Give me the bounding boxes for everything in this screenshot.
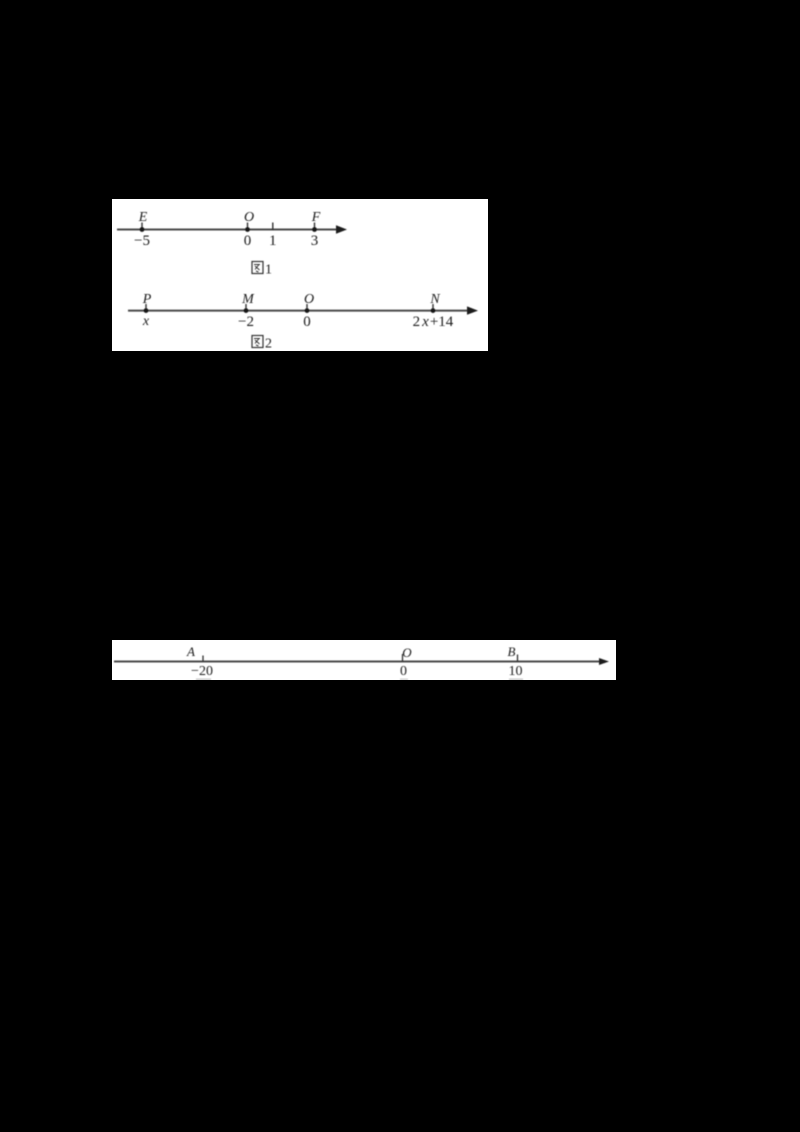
svg-text:−20: −20: [191, 664, 213, 679]
svg-text:0: 0: [244, 233, 252, 249]
svg-text:0: 0: [400, 664, 407, 679]
svg-text:O: O: [402, 645, 412, 660]
svg-text:0: 0: [303, 314, 311, 330]
svg-text:2: 2: [265, 337, 272, 352]
svg-text:E: E: [138, 210, 148, 225]
svg-text:−2: −2: [238, 314, 254, 330]
svg-text:F: F: [311, 210, 321, 225]
svg-text:−5: −5: [134, 233, 150, 249]
svg-text:3: 3: [311, 233, 319, 249]
svg-text:M: M: [241, 292, 255, 307]
svg-text:x: x: [142, 314, 150, 329]
svg-text:1: 1: [269, 233, 277, 249]
svg-text:N: N: [429, 292, 440, 307]
svg-text:O: O: [244, 210, 254, 225]
svg-text:B: B: [508, 644, 516, 659]
svg-text:2x+14: 2x+14: [413, 314, 454, 330]
svg-text:10: 10: [509, 664, 523, 679]
svg-text:O: O: [304, 292, 314, 307]
svg-text:P: P: [142, 292, 152, 307]
svg-text:1: 1: [265, 263, 272, 278]
svg-text:A: A: [186, 644, 195, 659]
